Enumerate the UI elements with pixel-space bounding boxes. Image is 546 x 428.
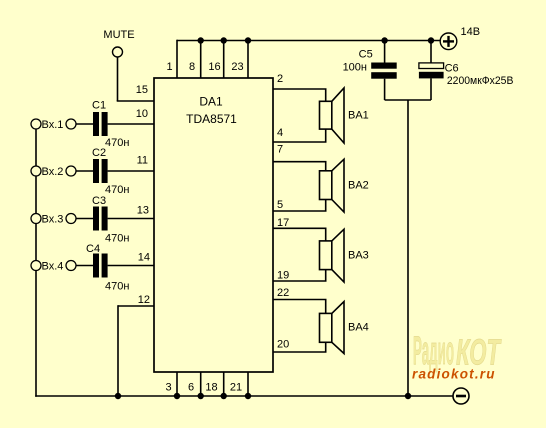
wire C4 to pin 14 (108, 265, 154, 267)
input terminal Вх.3 outer (31, 214, 41, 224)
input terminal Вх.4 inner (66, 261, 76, 271)
wire pin 19 to BA3 bottom (273, 270, 326, 281)
wire pin 2 to BA1 top (273, 89, 326, 101)
svg-text:6: 6 (188, 382, 194, 394)
ground terminal minus (453, 388, 469, 404)
wire bus to C5 top (384, 41, 386, 63)
node junction dot pin12 ground (115, 393, 121, 399)
svg-text:C2: C2 (92, 147, 106, 159)
op-amp IC U1 DA1 TDA8571 body (154, 78, 273, 372)
svg-text:19: 19 (277, 269, 289, 281)
speaker BA3 (320, 229, 345, 282)
svg-text:7: 7 (277, 143, 283, 155)
wire input1 to C1 (76, 123, 94, 125)
svg-text:Вх.3: Вх.3 (42, 214, 64, 226)
wire MUTE vertical (117, 57, 119, 101)
svg-text:C5: C5 (359, 49, 373, 61)
svg-text:2200мкФх25В: 2200мкФх25В (447, 75, 514, 87)
svg-text:BA3: BA3 (348, 250, 369, 262)
power terminal +14V (440, 33, 457, 50)
capacitor C3 plates (93, 207, 108, 231)
wire pin 20 to BA4 bottom (273, 342, 326, 352)
svg-text:14: 14 (138, 252, 150, 264)
svg-text:TDA8571: TDA8571 (186, 112, 237, 126)
wire pin 17 to BA3 top (273, 228, 326, 241)
svg-text:C4: C4 (86, 243, 100, 255)
speaker BA4 (320, 302, 345, 354)
wire input2 to C2 (76, 170, 94, 172)
svg-text:BA2: BA2 (348, 180, 369, 192)
svg-text:13: 13 (137, 205, 149, 217)
wire C1 to pin 10 (108, 123, 154, 125)
input terminal Вх.2 inner (66, 166, 76, 176)
svg-text:22: 22 (277, 287, 289, 299)
svg-text:18: 18 (205, 382, 217, 394)
svg-text:10: 10 (136, 108, 148, 120)
node junction dot C6 bus (428, 37, 434, 43)
wire pin 8 to bus (200, 41, 202, 79)
svg-text:4: 4 (277, 127, 283, 139)
wire bus to C6 top (430, 41, 432, 63)
svg-text:C1: C1 (92, 100, 106, 112)
svg-text:Вх.4: Вх.4 (42, 261, 64, 273)
svg-text:3: 3 (165, 382, 171, 394)
wire pin 12 vertical to ground (117, 305, 119, 396)
wire C6 bottom down (430, 78, 432, 100)
svg-text:radiokot.ru: radiokot.ru (412, 367, 496, 382)
wire pin 21 to ground (247, 372, 249, 396)
svg-text:BA1: BA1 (348, 109, 369, 121)
capacitor C6 electrolytic plates (419, 63, 444, 69)
svg-text:C3: C3 (92, 195, 106, 207)
wire C3 to pin 13 (108, 218, 154, 220)
wire input3 to C3 (76, 218, 94, 220)
svg-text:BA4: BA4 (348, 321, 369, 333)
speaker BA2 (320, 159, 345, 212)
MUTE terminal circle (113, 47, 123, 57)
svg-text:21: 21 (230, 382, 242, 394)
node junction dot pin18 ground (221, 393, 227, 399)
wire pin 6 to ground (200, 372, 202, 396)
svg-text:100н: 100н (343, 61, 367, 73)
node junction dot pin23 bus (245, 37, 251, 43)
wire pin 23 to bus (247, 41, 249, 79)
svg-text:470н: 470н (105, 233, 129, 245)
node junction dot C5 bus (381, 37, 387, 43)
svg-text:15: 15 (136, 84, 148, 96)
input terminal Вх.1 inner (66, 119, 76, 129)
node junction dot pin16 bus (221, 37, 227, 43)
wire left ground bus vertical (35, 124, 37, 397)
capacitor C4 plates (93, 254, 108, 278)
wire top supply bus (177, 40, 441, 42)
svg-text:11: 11 (137, 155, 148, 167)
wire pin 7 to BA2 top (273, 162, 326, 171)
svg-text:5: 5 (277, 199, 283, 211)
wire pin 4 to BA1 bottom (273, 129, 326, 142)
wire pin 3 to ground (176, 372, 178, 396)
svg-text:14В: 14В (461, 26, 481, 38)
svg-text:Вх.1: Вх.1 (42, 119, 64, 131)
svg-text:17: 17 (277, 217, 289, 229)
input terminal Вх.3 inner (66, 214, 76, 224)
svg-text:23: 23 (231, 61, 243, 73)
node junction dot pin8 bus (198, 37, 204, 43)
svg-text:470н: 470н (105, 184, 129, 196)
wire pin 22 to BA4 top (273, 300, 326, 314)
svg-text:DA1: DA1 (199, 95, 223, 109)
node junction dot pin6 ground (198, 393, 204, 399)
wire C5/C6 bottom join (385, 99, 431, 101)
wire long vertical to ground bus (407, 100, 409, 396)
svg-text:C6: C6 (445, 63, 459, 75)
speaker BA1 (320, 88, 345, 143)
wire C5 bottom down (384, 79, 386, 100)
input terminal Вх.4 outer (31, 261, 41, 271)
input terminal Вх.1 outer (31, 119, 41, 129)
wire pin 1 to bus (176, 40, 178, 78)
wire pin 12 horizontal (118, 305, 154, 307)
svg-text:470н: 470н (105, 137, 129, 149)
wire pin 16 to bus (223, 41, 225, 79)
svg-text:8: 8 (189, 61, 195, 73)
capacitor C5 plates (371, 63, 397, 79)
input terminal Вх.2 outer (31, 166, 41, 176)
svg-text:2: 2 (277, 73, 283, 85)
svg-text:Вх.2: Вх.2 (42, 166, 64, 178)
wire pin 18 to ground (223, 372, 225, 396)
node junction dot pin3 ground (174, 393, 180, 399)
node junction dot vertical ground (405, 393, 411, 399)
svg-text:1: 1 (166, 61, 172, 73)
node junction dot pin21 ground (245, 393, 251, 399)
svg-text:20: 20 (277, 338, 289, 350)
capacitor C2 plates (93, 159, 108, 183)
svg-text:470н: 470н (105, 281, 129, 293)
wire MUTE to pin 15 (117, 100, 154, 102)
wire pin 5 to BA2 bottom (273, 200, 326, 212)
svg-text:16: 16 (208, 61, 220, 73)
capacitor C1 plates (93, 112, 108, 136)
wire bottom ground bus (35, 395, 453, 397)
wire input4 to C4 (76, 265, 94, 267)
svg-text:MUTE: MUTE (103, 29, 134, 41)
svg-text:12: 12 (138, 294, 150, 306)
wire C2 to pin 11 (108, 170, 154, 172)
